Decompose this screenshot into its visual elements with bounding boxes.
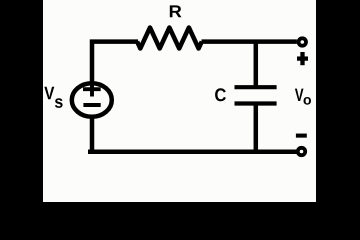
label Vs subscript s	[55, 98, 63, 108]
terminal + (top output)	[299, 38, 306, 45]
wire: resistor to top output node	[202, 39, 297, 44]
label Vo letter V	[295, 89, 304, 101]
label Vs letter V	[44, 87, 54, 99]
capacitor C	[235, 87, 277, 103]
polarity - inside source	[83, 103, 100, 107]
polarity - at output	[296, 134, 307, 138]
wire: source bottom lead	[90, 115, 95, 154]
wire: bottom return	[88, 149, 297, 154]
terminal - (bottom output)	[298, 148, 305, 155]
wire: top-left from source up to resistor	[92, 42, 138, 85]
voltage source Vs	[72, 83, 112, 117]
resistor R	[137, 28, 202, 49]
polarity + at output	[297, 52, 308, 65]
label C	[215, 88, 226, 101]
wire: capacitor bottom lead	[254, 102, 259, 154]
polarity + inside source	[83, 82, 101, 96]
label Vo subscript o	[304, 97, 312, 105]
wire: capacitor top lead	[254, 40, 259, 90]
label R	[170, 5, 182, 17]
